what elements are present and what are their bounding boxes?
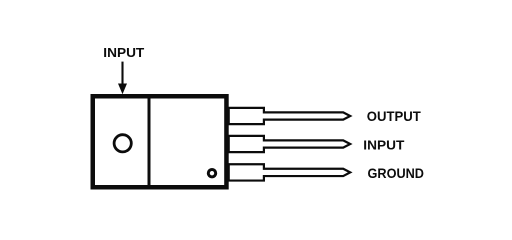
svg-text:OUTPUT: OUTPUT [367, 108, 421, 124]
svg-text:GROUND: GROUND [368, 165, 425, 181]
svg-text:INPUT: INPUT [363, 137, 404, 152]
svg-text:INPUT: INPUT [103, 45, 144, 60]
